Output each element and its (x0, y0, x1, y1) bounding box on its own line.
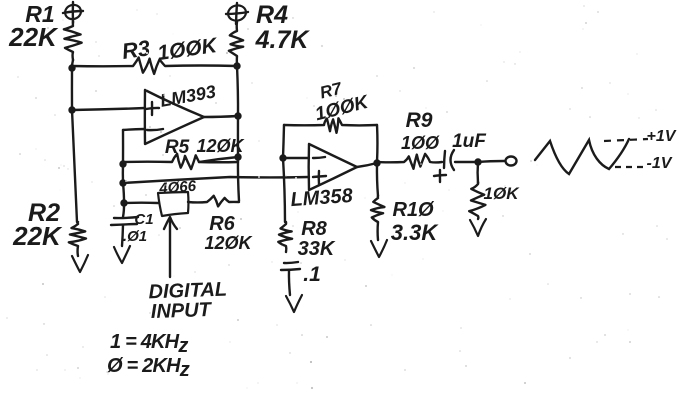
wire node J down to R10 (377, 163, 378, 196)
wire R7 right end down to output node J (376, 125, 379, 162)
capacitor C2 1uF (plates) (444, 150, 454, 170)
junction node K (output divider) (474, 158, 481, 165)
power +V supply for R4 (226, 3, 248, 24)
resistor R2 22K (vertical) (69, 222, 86, 256)
wire node K down to 10K resistor (476, 162, 479, 183)
wire left rail node B down to R2 (72, 110, 77, 222)
svg-text:+1V: +1V (647, 128, 677, 145)
wire feedback rail F to G (122, 164, 125, 183)
junction node E (R5 right end) (234, 153, 241, 160)
svg-text:.Ø1: .Ø1 (123, 228, 147, 245)
power +V supply for R1 (63, 2, 83, 23)
svg-text:-1V: -1V (647, 155, 673, 172)
junction node B (LM393 + input) (68, 106, 75, 113)
wire node I up to R7 (283, 125, 284, 158)
wire left rail R1 to node A (72, 60, 73, 68)
wire right rail node C to LM393 output node (237, 66, 238, 116)
resistor R6 120K (horizontal, 4066 right to rail) (188, 196, 239, 207)
digital input control arrow into 4066 (164, 217, 177, 277)
junction node F (R5 left end) (119, 160, 126, 167)
wire right rail node D to R5 node (237, 116, 239, 157)
svg-text:LM358: LM358 (290, 185, 355, 211)
ground below 10K (470, 219, 486, 236)
dashed line -1V level (615, 166, 644, 168)
ground below R2 (72, 255, 88, 272)
resistor R8 33K (vertical) (278, 222, 292, 252)
svg-text:1uF: 1uF (452, 131, 487, 152)
svg-text:4Ø66: 4Ø66 (158, 178, 197, 198)
junction node H (4066 left) (120, 199, 127, 206)
LM358 + input symbol (313, 171, 326, 184)
ground below .1 cap (286, 295, 302, 312)
svg-text:R8: R8 (301, 218, 327, 240)
svg-text:C1: C1 (134, 211, 153, 228)
junction node J (LM358 output) (373, 159, 380, 166)
svg-text:INPUT: INPUT (150, 299, 213, 323)
svg-text:R5: R5 (165, 137, 190, 158)
wire node K to output terminal (478, 161, 504, 162)
junction node C (R3/R4/rail) (233, 62, 240, 69)
resistor R5 120K (horizontal, node F to node E) (123, 154, 238, 169)
resistor R9 100 (horizontal, node J to C2) (377, 154, 442, 169)
wire feedback rail down from LM393 - input (122, 130, 124, 164)
svg-text:R9: R9 (406, 109, 433, 132)
wire LM393 - input to left feedback rail (123, 129, 145, 130)
wire left rail node A to node B (71, 68, 73, 110)
dashed line +1V level (604, 139, 648, 141)
ground below R10 (371, 240, 387, 257)
wire node I down to R8 (283, 158, 285, 222)
svg-text:33K: 33K (298, 238, 336, 260)
svg-text:1ØØ: 1ØØ (401, 133, 440, 153)
svg-text:4.7K: 4.7K (255, 26, 311, 54)
wire node H down to C1 (123, 203, 124, 217)
wire C2 to node K (455, 161, 478, 163)
junction node D (LM393 output) (234, 112, 241, 119)
svg-text:12ØK: 12ØK (196, 136, 245, 156)
svg-text:1ØK: 1ØK (484, 184, 521, 203)
wire node B to LM393 + input (72, 108, 145, 110)
label + (C2 polarity) (434, 170, 446, 182)
op-amp U1 LM393 (comparator triangle) (145, 90, 204, 144)
LM358 - input symbol (313, 157, 325, 158)
LM393 + input symbol (146, 102, 159, 115)
ground below C1 (114, 246, 130, 263)
svg-text:3.3K: 3.3K (391, 220, 440, 245)
resistor 10K (vertical, output load) (469, 182, 485, 219)
resistor R4 4.7K (vertical) (229, 22, 243, 66)
resistor R7 100K (horizontal feedback) (284, 118, 377, 133)
output waveform sketch (sawtooth) (535, 139, 629, 174)
output terminal (open circle) (506, 157, 517, 166)
junction node A (R1/R3) (68, 64, 75, 71)
svg-text:R1Ø: R1Ø (392, 199, 435, 221)
capacitor C1 .01 (plates) (111, 217, 138, 246)
svg-text:R3: R3 (120, 35, 151, 64)
resistor R1 22K (vertical) (64, 21, 82, 60)
wire node I to LM358 - input (283, 157, 309, 159)
junction node I (LM358 - input / R7 / R8) (279, 154, 286, 161)
wire right rail node E down to R6 (238, 157, 239, 201)
wire node H to 4066 left (124, 201, 158, 204)
capacitor .1 below R8 (plates) (281, 262, 300, 295)
junction node G (wire to LM358 +) (119, 179, 126, 186)
resistor R3 100K (horizontal, node A to node C) (72, 58, 237, 74)
wire LM358 output to node J (357, 163, 377, 167)
analog switch U3 4066 (box) (158, 192, 188, 216)
svg-text:12ØK: 12ØK (204, 233, 253, 253)
wire LM393 output to node D (204, 116, 238, 117)
LM393 - input symbol (147, 129, 163, 130)
svg-text:22K: 22K (8, 22, 59, 52)
wire feedback rail G to H (123, 183, 124, 203)
wire node G to LM358 + input (123, 177, 309, 183)
resistor R10 3.3K (vertical) (371, 196, 384, 240)
svg-text:.1: .1 (303, 263, 321, 286)
svg-text:22K: 22K (12, 221, 63, 251)
svg-text:R4: R4 (256, 1, 288, 29)
svg-text:R6: R6 (209, 213, 235, 235)
op-amp U2 LM358 (triangle) (309, 144, 357, 190)
